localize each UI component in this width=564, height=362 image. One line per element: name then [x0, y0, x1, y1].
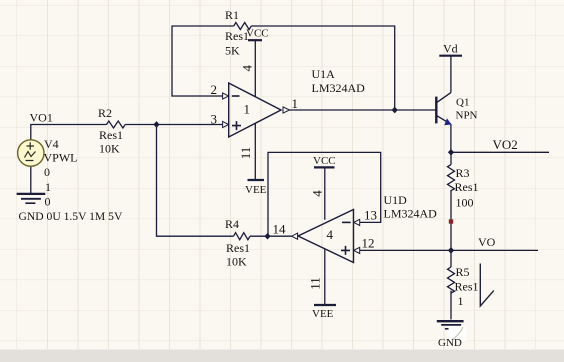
- svg-text:10K: 10K: [99, 142, 120, 156]
- svg-text:VO1: VO1: [30, 111, 53, 125]
- svg-text:Q1: Q1: [456, 97, 469, 109]
- svg-text:4: 4: [240, 64, 255, 71]
- svg-text:VCC: VCC: [246, 28, 269, 40]
- svg-text:1: 1: [45, 180, 51, 194]
- svg-text:13: 13: [364, 208, 377, 223]
- svg-text:VPWL: VPWL: [44, 151, 78, 165]
- svg-text:LM324AD: LM324AD: [312, 81, 366, 95]
- U1D pin13 arrow: [354, 219, 360, 225]
- wire VO junction to R5: [450, 250, 452, 267]
- U1A plus sign: [232, 121, 241, 130]
- voltage source V4: [18, 140, 44, 166]
- wire junction A down to R4 row: [157, 125, 268, 237]
- svg-text:2: 2: [211, 82, 218, 97]
- Q1 emitter arrow: [444, 118, 451, 125]
- probe mark: [480, 264, 494, 307]
- wire U1D output to feedback junction: [268, 235, 292, 237]
- white artifact box over ground: [449, 326, 467, 341]
- svg-text:14: 14: [273, 222, 287, 237]
- svg-text:4: 4: [327, 227, 334, 242]
- VEE power port (U1A): [248, 179, 265, 181]
- svg-text:VO2: VO2: [493, 137, 518, 152]
- transistor Q1: [436, 93, 451, 125]
- wire VO2 net: [451, 151, 549, 153]
- svg-text:Res1: Res1: [455, 180, 479, 194]
- resistor R2: [107, 121, 126, 128]
- svg-text:U1D: U1D: [384, 193, 408, 207]
- wire U1D feedback box: output junction up, over, down to pin13: [268, 152, 381, 236]
- V4 waveform mark: [25, 152, 36, 161]
- svg-text:R1: R1: [225, 8, 239, 22]
- Q1 labels: [456, 97, 478, 122]
- R2 value labels: [98, 106, 123, 156]
- U1A pin3 arrow: [223, 121, 229, 127]
- V4 labels: [19, 137, 123, 223]
- wire source bottom to ground: [30, 166, 32, 193]
- svg-text:VEE: VEE: [312, 308, 334, 320]
- svg-text:0: 0: [44, 165, 50, 179]
- wire U1D pin4 to VCC: [324, 167, 326, 219]
- wire R3 bottom to VO junction: [450, 190, 452, 250]
- svg-text:R3: R3: [456, 166, 470, 180]
- R3 value labels: [455, 166, 479, 210]
- ground (V4): [17, 194, 46, 203]
- svg-text:Res1: Res1: [99, 128, 123, 142]
- Vd power port: [439, 55, 462, 57]
- junction node U1D output: [264, 233, 270, 240]
- resistor R1: [234, 23, 252, 30]
- junction node VO: [448, 247, 454, 254]
- svg-text:11: 11: [238, 147, 253, 160]
- wire U1A output to Q1 base: [289, 109, 436, 111]
- svg-text:GND: GND: [438, 337, 462, 349]
- R4 value labels: [225, 217, 250, 269]
- svg-text:Vd: Vd: [443, 42, 458, 56]
- wire feedback loop U1A: pin2 left, up, over R1, down to output node: [172, 26, 395, 110]
- U1A output arrow pin1: [283, 107, 290, 113]
- svg-text:100: 100: [456, 196, 474, 210]
- svg-text:NPN: NPN: [456, 110, 478, 122]
- op-amp U1D (mirrored): [298, 210, 354, 263]
- U1D plus sign: [341, 246, 350, 255]
- svg-text:R4: R4: [225, 217, 239, 231]
- node dot between R3 and VO: [449, 219, 453, 223]
- svg-text:R2: R2: [98, 106, 112, 120]
- wire U1A pin11 to VEE: [254, 123, 256, 180]
- svg-text:VO: VO: [478, 235, 496, 249]
- svg-text:12: 12: [362, 236, 375, 251]
- junction node VO2: [448, 149, 454, 156]
- svg-text:4: 4: [310, 190, 325, 197]
- svg-text:U1A: U1A: [312, 67, 336, 81]
- wire VO2 junction to R3: [450, 152, 452, 164]
- svg-text:Res1: Res1: [455, 280, 479, 294]
- svg-text:V4: V4: [44, 137, 59, 151]
- svg-text:1: 1: [244, 102, 251, 117]
- svg-text:R5: R5: [456, 265, 470, 279]
- junction node A (after R2): [153, 121, 159, 128]
- wire VO net from U1D pin12: [360, 249, 538, 251]
- svg-text:5K: 5K: [225, 44, 240, 58]
- junction node U1A output/feedback: [392, 107, 398, 114]
- U1D minus sign: [342, 221, 351, 223]
- VCC power port (U1D): [314, 166, 335, 168]
- wire U1A pin4 to VCC: [254, 40, 256, 97]
- svg-text:VEE: VEE: [245, 184, 267, 196]
- svg-text:11: 11: [308, 277, 323, 290]
- wire VO1 net: source top to pin3 of U1A: [31, 125, 223, 140]
- resistor R3 (vertical): [448, 165, 455, 191]
- U1D pin12 arrow: [354, 247, 360, 253]
- op-amp U1A: [229, 83, 281, 137]
- svg-text:1: 1: [458, 294, 464, 308]
- svg-text:10K: 10K: [226, 255, 247, 269]
- bottom gray strip: [0, 350, 564, 362]
- resistor R4: [234, 233, 251, 240]
- svg-text:LM324AD: LM324AD: [384, 207, 438, 221]
- svg-text:VCC: VCC: [313, 155, 336, 167]
- resistor R5 (vertical): [448, 267, 455, 293]
- svg-text:0: 0: [45, 195, 51, 209]
- wire Q1 collector to Vd: [450, 56, 452, 93]
- VEE power port (U1D): [314, 304, 336, 306]
- ground GND (bottom right): [437, 321, 464, 329]
- VCC power port (U1A): [248, 39, 262, 41]
- wire R5 bottom to GND: [450, 291, 452, 320]
- svg-text:GND 0U 1.5V 1M 5V: GND 0U 1.5V 1M 5V: [19, 210, 123, 223]
- wire Q1 emitter down to VO2 junction: [450, 124, 452, 152]
- U1D output arrow pin14: [292, 233, 298, 239]
- U1A minus sign: [232, 95, 240, 97]
- svg-text:1: 1: [292, 96, 299, 111]
- svg-text:3: 3: [211, 111, 218, 126]
- V4 plus mark: [27, 142, 35, 149]
- U1A pin2 arrow: [223, 93, 229, 99]
- svg-text:Res1: Res1: [226, 241, 250, 255]
- R1 value labels: [225, 8, 249, 58]
- wire U1D pin11 to VEE: [324, 249, 326, 305]
- R5 value labels: [455, 265, 479, 308]
